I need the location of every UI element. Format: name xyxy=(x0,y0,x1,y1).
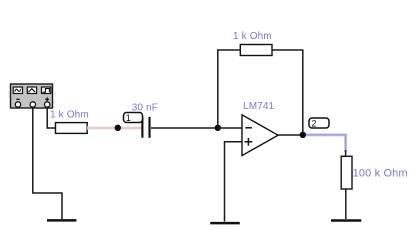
resistor R3 xyxy=(341,156,352,189)
svg-text:LM741: LM741 xyxy=(243,101,275,112)
wire R3 to ground xyxy=(345,189,347,219)
wire op-amp output to node 2 xyxy=(278,134,303,136)
wire non-inverting input to ground xyxy=(225,142,243,222)
svg-text:1 k Ohm: 1 k Ohm xyxy=(233,31,272,42)
node 2 label box xyxy=(309,118,329,128)
svg-text:2: 2 xyxy=(312,118,317,128)
ground (right) xyxy=(331,219,361,222)
wire node 2 to R3 (blue) xyxy=(306,135,346,152)
junction dot at inverting input xyxy=(215,125,221,131)
ground (left) xyxy=(47,219,76,222)
XFG1 triangle button xyxy=(27,87,36,94)
wire junction to op-amp xyxy=(218,127,242,129)
capacitor C1 xyxy=(142,117,149,138)
svg-text:30 nF: 30 nF xyxy=(132,102,158,113)
svg-text:1 k Ohm: 1 k Ohm xyxy=(50,109,89,120)
wire feedback right: R2 to output node xyxy=(272,50,303,135)
wire C1 to op-amp inverting input xyxy=(151,127,218,129)
ground (middle) xyxy=(210,222,240,225)
op-amp U1 LM741 xyxy=(242,115,278,156)
resistor R2 xyxy=(240,45,272,56)
XFG1 minus label xyxy=(16,98,19,100)
svg-text:100 k Ohm: 100 k Ohm xyxy=(353,167,408,179)
wire stub into R3 top xyxy=(345,150,347,156)
XFG1 sine button xyxy=(13,87,22,94)
resistor R1 xyxy=(56,123,88,134)
wire feedback left: junction up to R2 xyxy=(218,50,241,128)
XFG1 terminal common xyxy=(30,102,35,107)
svg-text:1: 1 xyxy=(126,113,131,123)
XFG1 plus label xyxy=(45,97,49,101)
junction node 1 dot xyxy=(115,125,121,131)
XFG1 square button xyxy=(42,87,51,94)
wire plus terminal to R1 xyxy=(47,107,55,128)
wire R1 to C1 (red selected) xyxy=(87,126,141,129)
junction node 2 dot xyxy=(300,132,306,138)
function generator XFG1 body xyxy=(11,84,53,108)
XFG1 terminal minus xyxy=(15,102,20,107)
wire common terminal to ground xyxy=(33,107,62,219)
XFG1 terminal plus xyxy=(45,102,50,107)
node 1 label box xyxy=(124,113,143,123)
